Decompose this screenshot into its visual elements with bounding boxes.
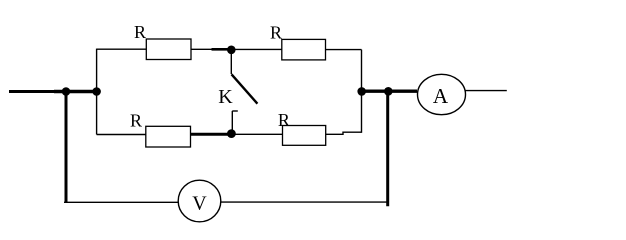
svg-text:R: R — [130, 111, 142, 131]
svg-text:R: R — [278, 110, 290, 130]
svg-text:R: R — [270, 23, 282, 43]
svg-text:R: R — [134, 22, 146, 42]
svg-text:A: A — [433, 84, 449, 108]
svg-text:V: V — [192, 193, 207, 215]
svg-text:K: K — [218, 86, 233, 108]
